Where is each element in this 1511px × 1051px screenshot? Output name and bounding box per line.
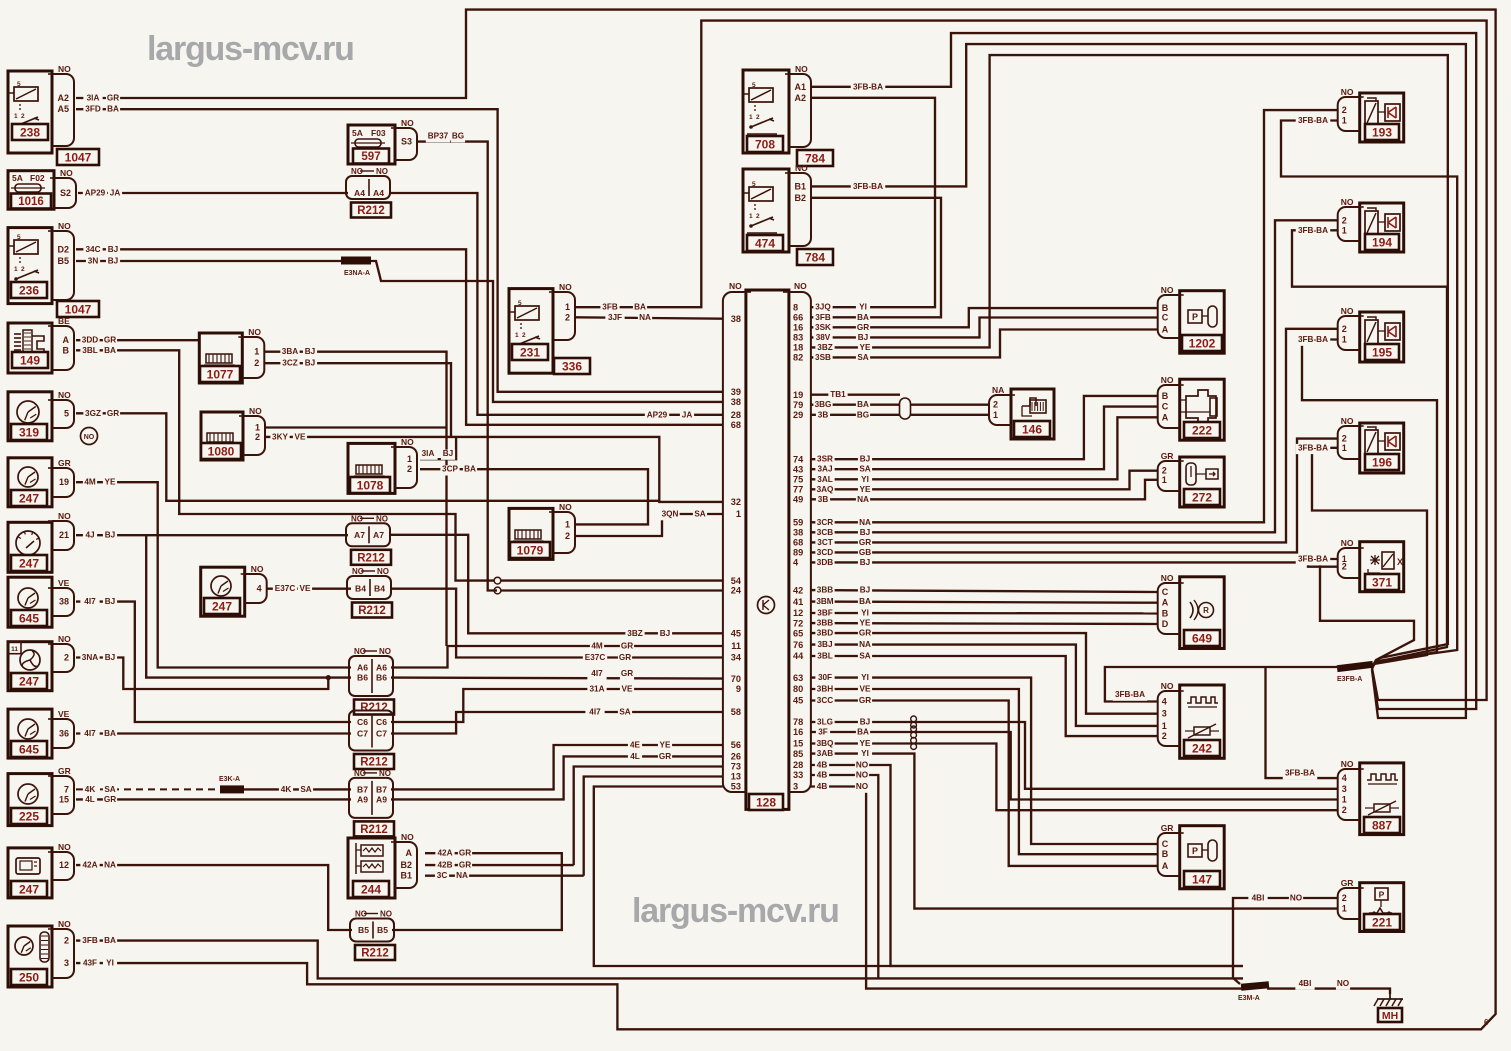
- label 3BA-BJ 1078: [418, 450, 437, 460]
- wire ECU pin72 to 649:D: [810, 622, 1157, 625]
- svg-text:C6: C6: [357, 717, 368, 727]
- label 3B-BG: [816, 411, 830, 421]
- svg-text:5: 5: [17, 81, 21, 88]
- wire E3M-A to ground MH: [1267, 989, 1390, 994]
- fan 247 pin2: [8, 642, 52, 691]
- svg-text:1: 1: [749, 114, 753, 121]
- svg-text:63: 63: [793, 673, 803, 683]
- sensor 319: [8, 392, 52, 441]
- svg-text:195: 195: [1372, 345, 1392, 359]
- svg-text:NO: NO: [60, 168, 73, 178]
- wire ECU pin8 to 708:A2: [810, 98, 935, 307]
- svg-text:42A: 42A: [437, 849, 452, 858]
- svg-text:244: 244: [361, 882, 381, 896]
- svg-text:3BJ: 3BJ: [817, 640, 832, 649]
- svg-text:GR: GR: [857, 323, 869, 332]
- fuse 1016 5A F02: [8, 171, 54, 210]
- label 3FB-BA 195: [1296, 336, 1331, 346]
- label 3FB-BA 194: [1296, 226, 1331, 236]
- wire 3FB-BA 250:2 to E3M-A line: [76, 941, 1243, 979]
- label 4I7-BA: [80, 730, 99, 740]
- svg-text:4: 4: [793, 558, 799, 568]
- sensor 645 pin38: [8, 577, 52, 627]
- wire 3DD-GR 149:A to 1077: [76, 339, 199, 341]
- svg-text:28: 28: [731, 410, 741, 420]
- svg-text:30F: 30F: [818, 673, 832, 682]
- svg-text:NO: NO: [1341, 759, 1354, 769]
- svg-text:42A: 42A: [82, 861, 97, 870]
- svg-text:NA: NA: [859, 518, 871, 527]
- label 3CC-GR: [815, 697, 834, 707]
- wire 196:1 3FB-BA loop: [1312, 448, 1427, 669]
- svg-text:D: D: [1162, 619, 1169, 629]
- label 3GZ-GR: [83, 409, 102, 419]
- wire ECU pin65 to 242:3: [810, 633, 1157, 714]
- svg-text:3BZ: 3BZ: [817, 343, 832, 352]
- svg-text:1: 1: [254, 347, 259, 357]
- wire ECU pin63 to 147:C: [810, 678, 1157, 844]
- svg-text:4I7: 4I7: [591, 669, 603, 678]
- label E37C-GR: [583, 654, 607, 664]
- svg-text:NO: NO: [1341, 416, 1354, 426]
- svg-text:B: B: [1162, 849, 1169, 859]
- svg-text:MH: MH: [1382, 1010, 1398, 1022]
- svg-text:45: 45: [731, 629, 741, 639]
- wire 4K-SA solid to R212:B7: [244, 788, 351, 790]
- svg-text:R212: R212: [360, 824, 388, 836]
- svg-text:1: 1: [1342, 904, 1347, 914]
- svg-text:222: 222: [1192, 423, 1212, 437]
- wire to ECU pin54: [501, 579, 723, 581]
- label 30F-YI: [815, 674, 834, 684]
- svg-text:2: 2: [1342, 562, 1347, 572]
- svg-text:BJ: BJ: [860, 718, 870, 727]
- svg-text:NO: NO: [559, 282, 572, 292]
- svg-text:34: 34: [731, 653, 742, 663]
- svg-text:BJ: BJ: [105, 597, 115, 606]
- wire 1078:1 riser: [420, 437, 456, 459]
- svg-text:3CR: 3CR: [817, 518, 833, 527]
- svg-text:29: 29: [793, 410, 803, 420]
- svg-text:8: 8: [793, 302, 798, 312]
- wire 4M-YE 247:19 to R212:A6: [76, 482, 351, 667]
- svg-text:3FB-BA: 3FB-BA: [1285, 769, 1315, 778]
- svg-text:A7: A7: [373, 530, 384, 540]
- svg-text:1202: 1202: [1189, 336, 1216, 350]
- svg-text:74: 74: [793, 454, 804, 464]
- svg-text:B: B: [63, 345, 70, 355]
- svg-text:YE: YE: [660, 741, 671, 750]
- wire ECU pin16 to 1202:B: [810, 308, 1157, 327]
- label 3BZ-BJ: [625, 629, 644, 639]
- wire rail3 3FB-BA from 708:A1: [812, 33, 1476, 709]
- svg-text:NO: NO: [248, 327, 261, 337]
- label BP37-BG: [426, 132, 450, 142]
- label 43F-YI 250: [80, 959, 99, 969]
- svg-text:BJ: BJ: [860, 528, 870, 537]
- svg-text:3SK: 3SK: [815, 323, 831, 332]
- wire 371:1 3FB-BA loop: [1320, 559, 1414, 667]
- svg-text:221: 221: [1372, 915, 1392, 929]
- svg-text:A: A: [63, 335, 70, 345]
- wire AP29-JA 1016:S2 to R212:A4: [78, 192, 348, 194]
- wire R212:B6 to ECU pin70: [391, 678, 723, 679]
- svg-text:1: 1: [1342, 116, 1347, 126]
- svg-text:3FB-BA: 3FB-BA: [1298, 226, 1328, 235]
- wire 1078:2 to 1079:1: [420, 469, 648, 524]
- svg-text:A: A: [1162, 325, 1169, 335]
- label 3F-BA: [816, 728, 830, 738]
- svg-text:238: 238: [20, 125, 40, 139]
- svg-text:597: 597: [361, 151, 380, 163]
- svg-text:BA: BA: [464, 465, 476, 474]
- svg-text:66: 66: [793, 313, 803, 323]
- svg-text:77: 77: [793, 485, 803, 495]
- svg-text:BJ: BJ: [860, 586, 870, 595]
- connector R212 A6-B6: [349, 656, 393, 696]
- svg-text:P: P: [1379, 890, 1385, 900]
- svg-text:42: 42: [793, 585, 803, 595]
- label 4BI a: [1248, 894, 1267, 904]
- label 3BF-YI: [815, 609, 834, 619]
- svg-text:GR: GR: [58, 458, 71, 468]
- svg-text:B7: B7: [376, 784, 387, 794]
- label 3AQ-YE: [815, 485, 834, 495]
- sensor 272: [1180, 457, 1225, 507]
- wire ECU pin76 to 242:1: [810, 645, 1157, 726]
- svg-text:NA: NA: [456, 871, 468, 880]
- svg-text:NO: NO: [249, 406, 262, 416]
- svg-text:GR: GR: [621, 642, 633, 651]
- svg-text:R212: R212: [360, 757, 388, 769]
- label 3SR-BJ: [815, 455, 834, 465]
- label 3BL-BA: [80, 346, 99, 356]
- svg-text:2: 2: [565, 312, 570, 322]
- svg-text:GR: GR: [459, 861, 471, 870]
- svg-text:BA: BA: [857, 400, 869, 409]
- svg-text:SA: SA: [859, 465, 870, 474]
- svg-text:78: 78: [793, 717, 803, 727]
- ECU engine control unit 128: [746, 290, 789, 809]
- label 3KY-VE: [270, 433, 289, 443]
- svg-text:3BB: 3BB: [817, 619, 833, 628]
- relay 474 / connector 784: [743, 169, 789, 252]
- svg-text:YE: YE: [860, 619, 871, 628]
- svg-text:NO: NO: [559, 502, 572, 512]
- svg-text:SA: SA: [619, 708, 630, 717]
- svg-text:1: 1: [993, 410, 998, 420]
- svg-text:15: 15: [59, 794, 69, 804]
- svg-text:R212: R212: [358, 605, 386, 617]
- connector 1079: [509, 508, 553, 559]
- svg-text:43: 43: [793, 464, 803, 474]
- wire R212:A6 to ECU pin11: [391, 646, 723, 668]
- symbol NO circle: [81, 428, 98, 445]
- svg-text:BA: BA: [104, 729, 116, 738]
- svg-text:GR: GR: [659, 752, 671, 761]
- svg-text:BA: BA: [104, 346, 116, 355]
- label 31A-VE: [587, 685, 606, 695]
- label 3CZ-BJ 1077: [280, 359, 299, 369]
- svg-text:largus-mcv.ru: largus-mcv.ru: [147, 30, 354, 68]
- label 3C-NA: [435, 872, 449, 882]
- svg-text:BP37: BP37: [428, 132, 449, 141]
- label 3DB-BJ: [815, 559, 834, 569]
- svg-text:B6: B6: [376, 673, 387, 683]
- svg-text:56: 56: [731, 740, 741, 750]
- svg-text:4I7: 4I7: [589, 708, 601, 717]
- svg-text:53: 53: [731, 782, 741, 792]
- svg-text:12: 12: [793, 608, 803, 618]
- svg-text:2: 2: [254, 358, 259, 368]
- svg-text:BA: BA: [857, 313, 869, 322]
- svg-text:4K: 4K: [281, 785, 292, 794]
- svg-text:4M: 4M: [591, 642, 603, 651]
- idle control 222: [1180, 379, 1225, 440]
- svg-text:B1: B1: [794, 181, 806, 191]
- wire R212:A7 to ECU pin45: [390, 535, 723, 634]
- svg-text:NO: NO: [58, 919, 71, 929]
- svg-text:2: 2: [64, 653, 69, 663]
- connector R212 A7-A7: [346, 523, 390, 546]
- svg-text:1: 1: [749, 213, 753, 220]
- label 42A-GR: [435, 849, 454, 859]
- wire ECU pin75 to 222:A: [810, 417, 1157, 479]
- svg-text:319: 319: [19, 425, 39, 439]
- svg-text:39: 39: [731, 387, 741, 397]
- svg-text:SA: SA: [694, 510, 705, 519]
- svg-text:YE: YE: [860, 485, 871, 494]
- svg-text:3CZ: 3CZ: [282, 359, 297, 368]
- svg-text:19: 19: [793, 390, 803, 400]
- svg-text:BA: BA: [857, 728, 869, 737]
- svg-text:NO: NO: [1161, 681, 1174, 691]
- label 3JF-NA: [605, 314, 624, 324]
- svg-text:B5: B5: [377, 925, 388, 935]
- svg-text:1: 1: [14, 266, 18, 273]
- svg-text:B: B: [1162, 608, 1169, 618]
- svg-text:NA: NA: [639, 313, 651, 322]
- svg-text:3DD: 3DD: [82, 336, 98, 345]
- svg-text:196: 196: [1372, 455, 1392, 469]
- svg-text:3: 3: [793, 782, 798, 792]
- wire ECU pin80 to 147:B: [810, 689, 1157, 854]
- svg-text:NO: NO: [1341, 87, 1354, 97]
- wire 3KY-VE 1080:2 to ECU pin32: [265, 437, 723, 502]
- label 3CT-GR: [815, 539, 834, 549]
- label 3BJ-NA: [815, 641, 834, 651]
- svg-text:R: R: [1203, 606, 1209, 615]
- svg-text:BJ: BJ: [108, 245, 118, 254]
- label 4L-GR: [83, 796, 97, 806]
- svg-text:3BQ: 3BQ: [817, 739, 834, 748]
- svg-text:3CC: 3CC: [817, 696, 833, 705]
- svg-text:F02: F02: [30, 173, 45, 183]
- connector R212 B4-B4: [347, 576, 391, 599]
- svg-text:41: 41: [793, 597, 803, 607]
- svg-text:NO: NO: [251, 564, 264, 574]
- svg-text:R212: R212: [357, 552, 385, 564]
- connector unit 149: [8, 323, 52, 373]
- svg-text:3FD: 3FD: [85, 105, 101, 114]
- svg-text:NO: NO: [376, 514, 388, 523]
- svg-text:BJ: BJ: [305, 359, 315, 368]
- label 4J-BJ: [83, 531, 97, 541]
- svg-text:708: 708: [755, 137, 775, 151]
- label 3FB-BA 242: [1113, 691, 1148, 701]
- svg-text:2: 2: [756, 114, 760, 121]
- wire E37C-GR R212:B4 to ECU pin34: [391, 589, 723, 658]
- svg-text:D2: D2: [57, 244, 69, 254]
- svg-text:1078: 1078: [357, 478, 384, 492]
- label NO a: [1289, 894, 1303, 904]
- svg-text:3BB: 3BB: [817, 586, 833, 595]
- svg-text:B2: B2: [400, 860, 412, 870]
- svg-text:NO: NO: [58, 221, 71, 231]
- connector R212 C6-C7: [349, 711, 393, 751]
- svg-text:16: 16: [793, 727, 803, 737]
- label 3N-BJ: [86, 257, 100, 267]
- svg-text:247: 247: [212, 599, 232, 613]
- svg-text:2: 2: [21, 113, 25, 120]
- svg-text:NA: NA: [992, 385, 1004, 395]
- svg-text:BJ: BJ: [660, 629, 670, 638]
- svg-text:SA: SA: [857, 353, 868, 362]
- svg-text:NO: NO: [379, 769, 391, 778]
- svg-text:SA: SA: [859, 652, 870, 661]
- svg-text:45: 45: [793, 696, 803, 706]
- svg-text:3BF: 3BF: [817, 609, 832, 618]
- svg-text:BA: BA: [634, 303, 646, 312]
- svg-text:4B: 4B: [817, 761, 828, 770]
- svg-text:242: 242: [1192, 741, 1212, 755]
- wire 4L-GR 225:15 to R212:A9: [76, 798, 351, 800]
- svg-text:38: 38: [793, 528, 803, 538]
- display 247 pin12: [8, 848, 52, 898]
- svg-text:NO: NO: [795, 163, 808, 173]
- svg-text:3BA: 3BA: [282, 347, 298, 356]
- svg-text:NO: NO: [380, 910, 392, 919]
- svg-text:24: 24: [731, 586, 742, 596]
- svg-text:A9: A9: [357, 794, 368, 804]
- label 3BA-BJ 1077: [280, 348, 299, 358]
- svg-text:VE: VE: [300, 584, 311, 593]
- svg-text:NO: NO: [856, 782, 869, 791]
- wire rail5 3BZ-YE from ECU pin18: [810, 55, 1447, 667]
- label 3BQ-YE: [815, 740, 834, 750]
- relay 708 / connector 784: [743, 70, 789, 153]
- svg-text:75: 75: [793, 475, 803, 485]
- speed sensor switch 221: [1360, 883, 1404, 932]
- svg-text:72: 72: [793, 618, 803, 628]
- connector R212 A4-A4: [346, 176, 390, 199]
- svg-text:44: 44: [793, 651, 804, 661]
- svg-text:GB: GB: [859, 548, 871, 557]
- svg-text:A: A: [406, 848, 413, 858]
- label 3DD-GR: [80, 336, 99, 346]
- svg-text:12: 12: [59, 860, 69, 870]
- heater unit 244: [348, 838, 395, 898]
- label 3SB-SA: [813, 354, 832, 364]
- svg-text:68: 68: [731, 420, 741, 430]
- svg-text:JA: JA: [682, 410, 693, 419]
- svg-text:43F: 43F: [83, 959, 97, 968]
- label 3FB-BA 708: [851, 83, 886, 93]
- svg-text:36: 36: [59, 729, 69, 739]
- svg-text:5: 5: [17, 234, 21, 241]
- wire 194:1 3FB-BA loop: [1292, 230, 1447, 667]
- svg-text:784: 784: [805, 151, 825, 165]
- svg-text:YE: YE: [860, 343, 871, 352]
- svg-text:21: 21: [59, 530, 69, 540]
- svg-text:NO: NO: [1337, 979, 1350, 988]
- wire 4I7-BA 645:36 to R212:C7: [76, 732, 351, 734]
- svg-text:4: 4: [1162, 697, 1167, 707]
- svg-text:NO: NO: [379, 647, 391, 656]
- svg-text:X: X: [1397, 557, 1403, 567]
- svg-text:3FB-BA: 3FB-BA: [1298, 335, 1328, 344]
- svg-text:BJ: BJ: [858, 333, 868, 342]
- wire to ECU pin24: [501, 589, 723, 591]
- label TB1: [828, 391, 847, 401]
- svg-text:2: 2: [993, 400, 998, 410]
- svg-text:BJ: BJ: [443, 449, 453, 458]
- svg-text:3: 3: [1162, 709, 1167, 719]
- wire ECU pin19 stub: [810, 394, 900, 396]
- svg-text:JA: JA: [110, 189, 121, 198]
- svg-text:4J: 4J: [85, 531, 94, 540]
- wire ECU pin43 to 222:C: [810, 407, 1157, 470]
- svg-text:83: 83: [793, 333, 803, 343]
- label 4B-NO 3: [815, 783, 829, 793]
- label 3AB-YI: [815, 750, 834, 760]
- relay 238 / connector 1047: [8, 71, 52, 153]
- label NO b: [1336, 980, 1350, 990]
- wire AP29-JA R212:A4 to ECU pin28: [390, 193, 723, 415]
- svg-text:S3: S3: [401, 137, 412, 147]
- svg-text:NO: NO: [58, 64, 71, 74]
- svg-text:NO: NO: [376, 167, 388, 176]
- wire ECU pin28b to E3M-A: [810, 765, 1243, 966]
- svg-text:A1: A1: [794, 82, 806, 92]
- connector 1080: [201, 412, 243, 460]
- svg-text:3GZ: 3GZ: [85, 409, 101, 418]
- svg-text:YI: YI: [106, 959, 114, 968]
- svg-text:5: 5: [752, 181, 756, 188]
- wire ECU pin89 to 196:2: [810, 439, 1337, 553]
- svg-text:R212: R212: [361, 948, 389, 960]
- relay 231 / connector 336: [509, 289, 553, 374]
- svg-text:1077: 1077: [207, 367, 234, 381]
- injector 193: [1360, 93, 1404, 142]
- svg-text:GR: GR: [621, 669, 633, 678]
- svg-text:NA: NA: [857, 495, 869, 504]
- label 34C-BJ: [83, 245, 102, 255]
- svg-text:4: 4: [257, 584, 262, 594]
- svg-text:BJ: BJ: [105, 531, 115, 540]
- wire 3GZ-GR 319:5: [76, 413, 659, 501]
- wire ECU pin15 to 887:2: [810, 744, 1337, 811]
- svg-text:E3M-A: E3M-A: [1238, 995, 1260, 1002]
- label AP29-JA: [83, 189, 107, 199]
- junction dot B6: [326, 675, 331, 680]
- wire ECU pin4 to 371:2: [810, 562, 1337, 566]
- svg-text:VE: VE: [58, 578, 70, 588]
- svg-text:1016: 1016: [18, 196, 44, 208]
- svg-text:A6: A6: [357, 663, 368, 673]
- svg-text:E3K-A: E3K-A: [219, 776, 240, 783]
- svg-text:85: 85: [793, 749, 803, 759]
